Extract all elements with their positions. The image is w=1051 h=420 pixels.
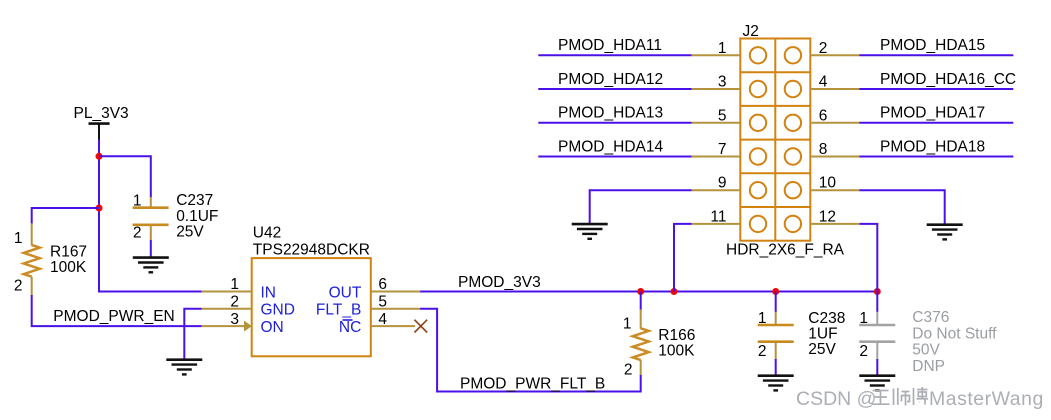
svg-text:R166: R166 — [658, 327, 695, 344]
pin 3 stub of U42 — [202, 325, 245, 327]
svg-text:7: 7 — [718, 141, 727, 158]
pin 8 stub of J2 — [810, 156, 859, 158]
svg-text:FLT_B: FLT_B — [316, 302, 361, 319]
wire PMOD_HDA14 — [538, 156, 691, 158]
junction node at PL_3V3 / R167 branch — [96, 205, 103, 212]
wire net PMOD_PWR_FLT_B — [420, 309, 641, 392]
pin 3 stub of J2 — [692, 88, 741, 90]
svg-text:CSDN @: CSDN @ — [796, 388, 876, 410]
svg-text:PMOD_HDA12: PMOD_HDA12 — [558, 71, 663, 88]
junction node at J2 pin 11 riser — [671, 288, 678, 295]
svg-text:50V: 50V — [912, 342, 940, 359]
value labels C238 1UF 25V — [808, 310, 845, 358]
pin 1 stub of U42 — [202, 291, 252, 293]
svg-text:PL_3V3: PL_3V3 — [74, 105, 129, 122]
resistor R167 — [24, 223, 40, 295]
svg-text:2: 2 — [819, 40, 828, 57]
svg-text:TPS22948DCKR: TPS22948DCKR — [253, 242, 370, 259]
svg-text:1: 1 — [623, 315, 632, 332]
capacitor C238 — [758, 292, 794, 376]
svg-text:2: 2 — [14, 277, 23, 294]
pin name NC with overbar — [339, 319, 361, 336]
svg-text:1: 1 — [14, 230, 23, 247]
pin 1 stub of J2 — [692, 54, 741, 56]
IC U42 body — [252, 258, 371, 356]
svg-text:C237: C237 — [176, 192, 213, 209]
svg-text:1: 1 — [758, 310, 767, 327]
svg-text:6: 6 — [378, 276, 387, 293]
wire branch to R167 — [32, 208, 99, 224]
svg-text:R167: R167 — [50, 243, 87, 260]
connector J2 body HDR_2X6_F_RA — [740, 39, 810, 241]
svg-text:5: 5 — [378, 294, 387, 311]
watermark glyph fu — [914, 387, 929, 405]
wire riser to J2 pin 11 — [674, 224, 692, 292]
ground below J2 pin 10 — [927, 225, 963, 240]
svg-text:2: 2 — [859, 343, 868, 360]
svg-text:1: 1 — [718, 40, 727, 57]
wire PL_3V3 vertical to U42 pin 1 — [99, 140, 202, 292]
svg-text:1UF: 1UF — [808, 326, 837, 343]
ground below C238 — [758, 376, 794, 391]
svg-text:0.1UF: 0.1UF — [176, 208, 218, 225]
power symbol PL_3V3 — [89, 124, 110, 141]
svg-text:PMOD_3V3: PMOD_3V3 — [458, 274, 541, 291]
wire PMOD_HDA18 — [859, 156, 1013, 158]
svg-text:2: 2 — [624, 362, 633, 379]
junction node at C376 / J2 pin 12 riser — [874, 288, 881, 295]
svg-text:PMOD_PWR_FLT_B: PMOD_PWR_FLT_B — [460, 375, 605, 392]
value labels C376 Do Not Stuff 50V DNP — [912, 309, 997, 375]
wire C237 to ground — [150, 240, 152, 257]
svg-text:1: 1 — [133, 192, 142, 209]
junction node at PL_3V3 / C237 branch — [96, 153, 103, 160]
svg-text:DNP: DNP — [912, 358, 945, 375]
svg-text:PMOD_HDA15: PMOD_HDA15 — [880, 37, 985, 54]
wire net PMOD_3V3 — [420, 291, 877, 293]
wire U42 pin 2 GND to ground — [184, 309, 201, 359]
svg-text:9: 9 — [718, 175, 727, 192]
svg-text:4: 4 — [378, 311, 387, 328]
svg-text:J2: J2 — [743, 23, 759, 40]
svg-text:PMOD_PWR_EN: PMOD_PWR_EN — [53, 308, 174, 325]
wire PMOD_HDA16_CC — [859, 88, 1013, 90]
pin 5 stub of U42 — [371, 308, 420, 310]
svg-text:8: 8 — [819, 141, 828, 158]
ground below C237 — [133, 258, 169, 273]
no-connect X on pin 4 — [414, 320, 427, 333]
svg-text:6: 6 — [819, 107, 828, 124]
svg-text:3: 3 — [718, 74, 727, 91]
watermark glyph wang — [872, 391, 890, 405]
svg-text:U42: U42 — [253, 224, 281, 241]
svg-text:10: 10 — [819, 175, 837, 192]
svg-text:100K: 100K — [658, 342, 695, 359]
svg-text:1: 1 — [230, 276, 239, 293]
input arrow on pin 3 — [244, 321, 252, 332]
svg-text:C376: C376 — [912, 309, 949, 326]
wire riser to J2 pin 12 — [859, 224, 877, 292]
wire PMOD_HDA17 — [859, 122, 1013, 124]
ground below J2 pin 9 — [572, 224, 608, 239]
svg-text:PMOD_HDA18: PMOD_HDA18 — [880, 138, 985, 155]
wire J2 pin 9 to ground — [590, 190, 692, 224]
svg-text:PMOD_HDA11: PMOD_HDA11 — [558, 37, 662, 54]
wire PMOD_HDA15 — [859, 54, 1013, 56]
junction node at C238 — [772, 288, 779, 295]
svg-text:GND: GND — [261, 302, 295, 319]
svg-text:1: 1 — [859, 310, 868, 327]
ground below U42 GND — [166, 360, 202, 375]
svg-text:PMOD_HDA16_CC: PMOD_HDA16_CC — [880, 71, 1016, 88]
ground below C376 — [859, 376, 895, 391]
pin 11 stub of J2 — [692, 223, 741, 225]
svg-text:OUT: OUT — [329, 284, 362, 301]
svg-text:ON: ON — [261, 319, 284, 336]
svg-text:PMOD_HDA14: PMOD_HDA14 — [558, 138, 663, 155]
wire PMOD_HDA13 — [538, 122, 691, 124]
svg-text:IN: IN — [261, 284, 277, 301]
svg-text:2: 2 — [230, 294, 239, 311]
svg-text:25V: 25V — [176, 223, 204, 240]
svg-text:100K: 100K — [50, 259, 87, 276]
value labels R167 100K — [50, 243, 87, 276]
value labels R166 100K — [658, 327, 695, 360]
svg-text:25V: 25V — [808, 341, 836, 358]
svg-text:11: 11 — [710, 208, 726, 225]
svg-text:NC: NC — [339, 319, 361, 336]
watermark glyph shi — [894, 388, 910, 406]
watermark CSDN — [796, 388, 1044, 410]
pin 2 stub of U42 — [202, 308, 252, 310]
svg-text:4: 4 — [819, 74, 828, 91]
svg-text:MasterWang: MasterWang — [929, 388, 1044, 410]
pin 7 stub of J2 — [692, 156, 741, 158]
pin 6 stub of U42 — [371, 291, 420, 293]
svg-text:2: 2 — [133, 225, 142, 242]
pin 9 stub of J2 — [692, 189, 741, 191]
svg-text:5: 5 — [718, 107, 727, 124]
resistor R166 — [633, 292, 649, 393]
wire branch to C237 — [99, 156, 151, 197]
wire PMOD_HDA12 — [538, 88, 691, 90]
pin 6 stub of J2 — [810, 122, 859, 124]
capacitor C376 (DNP gray) — [859, 292, 895, 376]
wire R167 to PMOD_PWR_EN line — [32, 295, 202, 326]
pin 4 stub of U42 — [371, 325, 415, 327]
svg-text:HDR_2X6_F_RA: HDR_2X6_F_RA — [726, 242, 845, 259]
svg-text:Do Not Stuff: Do Not Stuff — [912, 325, 997, 342]
svg-text:PMOD_HDA13: PMOD_HDA13 — [558, 105, 663, 122]
junction node at R166 — [637, 288, 644, 295]
pin 4 stub of J2 — [810, 88, 859, 90]
value labels C237 0.1UF 25V — [176, 192, 218, 240]
svg-text:PMOD_HDA17: PMOD_HDA17 — [880, 105, 985, 122]
svg-text:3: 3 — [230, 311, 239, 328]
capacitor C237 — [133, 197, 169, 241]
pin 10 stub of J2 — [810, 189, 859, 191]
pin 12 stub of J2 — [810, 223, 859, 225]
pin 2 stub of J2 — [810, 54, 859, 56]
svg-text:C238: C238 — [808, 310, 845, 327]
svg-text:2: 2 — [758, 343, 767, 360]
pin 5 stub of J2 — [692, 122, 741, 124]
svg-text:12: 12 — [819, 208, 836, 225]
wire J2 pin 10 to ground — [859, 190, 944, 224]
wire PMOD_HDA11 — [538, 54, 691, 56]
